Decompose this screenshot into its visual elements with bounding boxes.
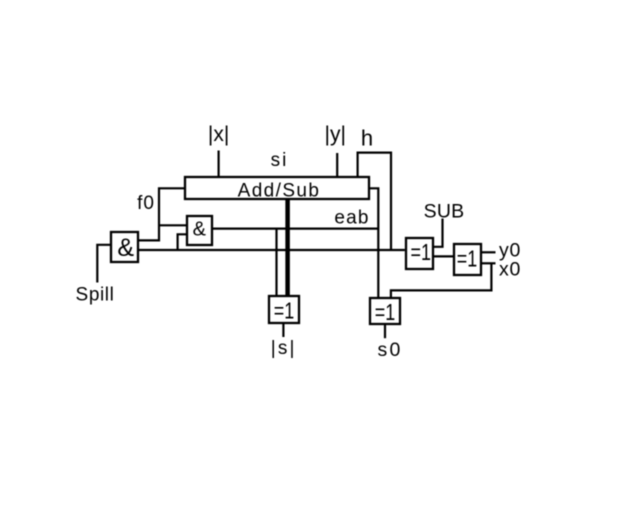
svg-text:=1: =1 — [375, 300, 395, 326]
svg-text:Spill: Spill — [76, 285, 115, 306]
svg-text:si: si — [271, 150, 289, 171]
svg-text:&: & — [117, 234, 134, 262]
svg-text:|s|: |s| — [271, 338, 297, 359]
svg-text:|x|: |x| — [208, 123, 229, 146]
svg-text:h: h — [361, 126, 373, 151]
svg-text:=1: =1 — [410, 240, 430, 266]
svg-text:&: & — [193, 219, 207, 241]
svg-text:x0: x0 — [499, 259, 521, 281]
svg-text:SUB: SUB — [424, 201, 465, 223]
svg-text:f0: f0 — [137, 193, 155, 214]
svg-text:=1: =1 — [274, 298, 294, 324]
svg-text:eab: eab — [334, 208, 369, 229]
svg-text:s0: s0 — [378, 339, 403, 361]
svg-text:Add/Sub: Add/Sub — [238, 181, 321, 202]
svg-text:|y|: |y| — [324, 123, 345, 146]
svg-text:=1: =1 — [457, 246, 477, 272]
